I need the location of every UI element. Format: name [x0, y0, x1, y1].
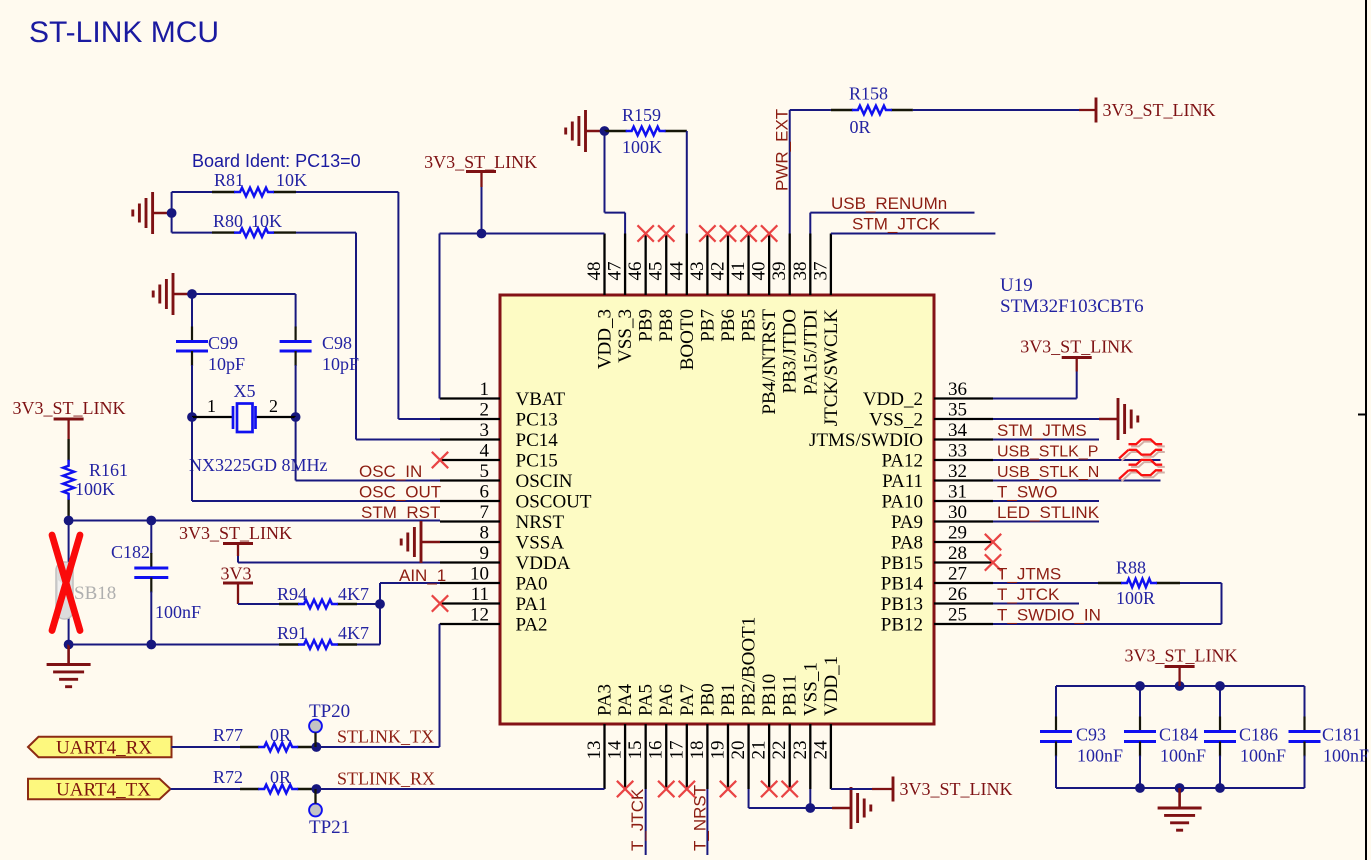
svg-text:2: 2: [480, 400, 490, 421]
svg-text:T_JTCK: T_JTCK: [628, 788, 647, 851]
svg-text:C181: C181: [1322, 725, 1361, 745]
svg-text:100R: 100R: [1116, 588, 1155, 608]
svg-text:20: 20: [728, 741, 749, 760]
svg-text:44: 44: [666, 261, 687, 281]
svg-text:SB18: SB18: [74, 583, 116, 604]
svg-text:33: 33: [948, 441, 967, 462]
svg-text:38: 38: [790, 262, 811, 281]
svg-text:3V3_ST_LINK: 3V3_ST_LINK: [900, 779, 1013, 799]
svg-text:ST-LINK MCU: ST-LINK MCU: [29, 16, 219, 49]
svg-text:PB9: PB9: [636, 309, 657, 342]
svg-text:LED_STLINK: LED_STLINK: [997, 503, 1100, 522]
svg-text:TP21: TP21: [309, 817, 350, 838]
svg-text:12: 12: [470, 605, 489, 626]
svg-text:7: 7: [480, 502, 490, 523]
svg-text:PB8: PB8: [656, 309, 677, 342]
svg-text:UART4_RX: UART4_RX: [56, 738, 152, 759]
svg-text:PB13: PB13: [881, 594, 923, 615]
svg-text:T_JTCK: T_JTCK: [997, 585, 1060, 604]
svg-text:NX3225GD 8MHz: NX3225GD 8MHz: [189, 455, 328, 475]
svg-text:100nF: 100nF: [1323, 746, 1369, 766]
svg-text:R91: R91: [277, 623, 307, 643]
svg-text:27: 27: [948, 564, 967, 585]
svg-text:T_JTMS: T_JTMS: [997, 565, 1061, 584]
svg-text:C184: C184: [1159, 725, 1198, 745]
svg-text:STM_JTCK: STM_JTCK: [852, 215, 941, 234]
svg-text:35: 35: [948, 400, 967, 421]
svg-text:PB14: PB14: [881, 574, 924, 595]
svg-text:10pF: 10pF: [322, 354, 359, 374]
svg-text:VSSA: VSSA: [516, 533, 565, 554]
svg-text:2: 2: [269, 396, 278, 416]
svg-text:JTCK/SWCLK: JTCK/SWCLK: [821, 309, 842, 426]
svg-text:5: 5: [480, 461, 490, 482]
svg-text:1: 1: [480, 379, 490, 400]
svg-text:0R: 0R: [850, 117, 871, 137]
svg-text:0R: 0R: [270, 725, 291, 745]
svg-text:3: 3: [480, 420, 490, 441]
svg-text:37: 37: [810, 262, 831, 281]
svg-text:3V3: 3V3: [221, 564, 252, 584]
svg-text:STM_JTMS: STM_JTMS: [997, 421, 1087, 440]
svg-text:T_SWO: T_SWO: [997, 483, 1057, 502]
svg-text:VDD_3: VDD_3: [595, 309, 616, 369]
svg-text:PA0: PA0: [516, 574, 548, 595]
svg-text:PA15/JTDI: PA15/JTDI: [800, 309, 821, 395]
svg-text:PA1: PA1: [516, 594, 548, 615]
svg-text:9: 9: [480, 543, 490, 564]
svg-text:PB3/JTDO: PB3/JTDO: [780, 309, 801, 393]
svg-text:16: 16: [646, 741, 667, 760]
svg-text:C186: C186: [1239, 725, 1278, 745]
svg-text:PA3: PA3: [595, 684, 616, 716]
svg-text:PA11: PA11: [882, 471, 923, 492]
svg-text:40: 40: [749, 262, 770, 281]
svg-text:C98: C98: [322, 333, 352, 353]
svg-text:R94: R94: [277, 584, 307, 604]
svg-text:3V3_ST_LINK: 3V3_ST_LINK: [1020, 337, 1133, 357]
svg-text:100nF: 100nF: [1160, 746, 1206, 766]
svg-text:R88: R88: [1116, 558, 1146, 578]
svg-text:19: 19: [707, 741, 728, 760]
svg-text:R159: R159: [622, 105, 661, 125]
svg-text:4K7: 4K7: [338, 623, 369, 643]
svg-text:45: 45: [646, 262, 667, 281]
svg-text:PB4/JNTRST: PB4/JNTRST: [759, 309, 780, 415]
svg-text:OSCOUT: OSCOUT: [516, 492, 592, 513]
svg-text:VSS_1: VSS_1: [800, 662, 821, 716]
svg-text:PB7: PB7: [697, 309, 718, 342]
svg-text:VDD_2: VDD_2: [863, 389, 923, 410]
svg-text:39: 39: [769, 262, 790, 281]
svg-text:VSS_3: VSS_3: [615, 309, 636, 363]
svg-text:PB6: PB6: [718, 309, 739, 342]
svg-text:PA7: PA7: [677, 684, 698, 716]
svg-text:T_SWDIO_IN: T_SWDIO_IN: [997, 606, 1101, 625]
svg-text:PWR_EXT: PWR_EXT: [773, 109, 792, 191]
svg-text:PA4: PA4: [615, 683, 636, 716]
svg-text:PC15: PC15: [516, 451, 558, 472]
svg-text:30: 30: [948, 502, 967, 523]
svg-text:PB15: PB15: [881, 553, 923, 574]
svg-text:C99: C99: [208, 333, 238, 353]
svg-text:PA9: PA9: [891, 512, 923, 533]
svg-text:BOOT0: BOOT0: [677, 309, 698, 370]
svg-text:STM_RST: STM_RST: [361, 503, 440, 522]
svg-text:3V3_ST_LINK: 3V3_ST_LINK: [1125, 646, 1238, 666]
svg-text:VBAT: VBAT: [516, 389, 566, 410]
svg-text:10K: 10K: [276, 170, 307, 190]
svg-text:PB2/BOOT1: PB2/BOOT1: [739, 617, 760, 716]
svg-text:24: 24: [810, 740, 831, 760]
svg-text:PA6: PA6: [656, 684, 677, 716]
svg-text:VDD_1: VDD_1: [821, 656, 842, 716]
svg-text:USB_STLK_P: USB_STLK_P: [997, 444, 1098, 461]
svg-text:1: 1: [207, 396, 216, 416]
svg-text:31: 31: [948, 482, 967, 503]
svg-text:100K: 100K: [622, 137, 662, 157]
svg-text:3V3_ST_LINK: 3V3_ST_LINK: [13, 398, 126, 418]
svg-text:36: 36: [948, 379, 967, 400]
svg-text:8: 8: [480, 523, 490, 544]
svg-text:21: 21: [749, 741, 770, 760]
svg-text:46: 46: [625, 262, 646, 281]
svg-text:UART4_TX: UART4_TX: [56, 780, 151, 801]
svg-text:R161: R161: [89, 460, 128, 480]
svg-text:C182: C182: [111, 542, 150, 562]
svg-text:100nF: 100nF: [1077, 746, 1123, 766]
svg-text:OSC_OUT: OSC_OUT: [359, 483, 441, 502]
svg-text:OSC_IN: OSC_IN: [359, 462, 422, 481]
svg-text:PC13: PC13: [516, 410, 558, 431]
svg-text:42: 42: [707, 262, 728, 281]
svg-text:23: 23: [790, 741, 811, 760]
svg-text:R81: R81: [214, 170, 244, 190]
svg-text:R158: R158: [849, 84, 888, 104]
svg-text:0R: 0R: [270, 767, 291, 787]
svg-text:32: 32: [948, 461, 967, 482]
svg-text:R72: R72: [213, 767, 243, 787]
svg-text:T_NRST: T_NRST: [691, 785, 710, 851]
svg-text:43: 43: [687, 262, 708, 281]
svg-text:15: 15: [625, 741, 646, 760]
svg-text:10K: 10K: [251, 211, 282, 231]
svg-text:25: 25: [948, 605, 967, 626]
svg-text:3V3_ST_LINK: 3V3_ST_LINK: [179, 523, 292, 543]
svg-text:41: 41: [728, 262, 749, 281]
svg-text:22: 22: [769, 741, 790, 760]
svg-text:10: 10: [470, 564, 489, 585]
svg-text:47: 47: [605, 262, 626, 281]
svg-text:USB_RENUMn: USB_RENUMn: [831, 194, 947, 213]
svg-text:PB12: PB12: [881, 615, 923, 636]
svg-text:100nF: 100nF: [155, 602, 201, 622]
svg-text:TP20: TP20: [309, 701, 350, 722]
svg-text:PB1: PB1: [718, 683, 739, 716]
svg-text:17: 17: [666, 741, 687, 760]
svg-text:STLINK_RX: STLINK_RX: [337, 769, 435, 789]
svg-text:PA2: PA2: [516, 615, 548, 636]
svg-text:6: 6: [480, 482, 490, 503]
svg-text:PC14: PC14: [516, 430, 559, 451]
svg-text:NRST: NRST: [516, 512, 565, 533]
svg-text:10pF: 10pF: [208, 354, 245, 374]
svg-text:PA12: PA12: [881, 451, 923, 472]
svg-text:100nF: 100nF: [1240, 746, 1286, 766]
svg-text:U19: U19: [1000, 275, 1033, 296]
svg-text:C93: C93: [1076, 725, 1106, 745]
svg-text:28: 28: [948, 543, 967, 564]
svg-text:34: 34: [948, 420, 968, 441]
svg-text:STM32F103CBT6: STM32F103CBT6: [1000, 296, 1144, 317]
svg-text:R77: R77: [213, 725, 243, 745]
svg-text:PA5: PA5: [636, 684, 657, 716]
svg-text:AIN_1: AIN_1: [399, 566, 446, 585]
svg-text:PB10: PB10: [759, 674, 780, 716]
svg-text:PB5: PB5: [739, 309, 760, 342]
svg-text:Board Ident: PC13=0: Board Ident: PC13=0: [192, 151, 361, 171]
svg-text:4K7: 4K7: [338, 584, 369, 604]
svg-text:PA10: PA10: [881, 492, 923, 513]
svg-text:13: 13: [584, 741, 605, 760]
svg-text:3V3_ST_LINK: 3V3_ST_LINK: [1103, 100, 1216, 120]
svg-text:29: 29: [948, 523, 967, 544]
svg-text:48: 48: [584, 262, 605, 281]
svg-text:26: 26: [948, 584, 967, 605]
svg-text:PA8: PA8: [891, 533, 923, 554]
svg-text:18: 18: [687, 741, 708, 760]
svg-text:11: 11: [471, 584, 489, 605]
svg-text:14: 14: [605, 740, 626, 760]
svg-text:USB_STLK_N: USB_STLK_N: [997, 464, 1099, 481]
svg-text:3V3_ST_LINK: 3V3_ST_LINK: [424, 152, 537, 172]
svg-text:JTMS/SWDIO: JTMS/SWDIO: [809, 430, 923, 451]
svg-text:PB0: PB0: [697, 683, 718, 716]
svg-text:100K: 100K: [75, 479, 115, 499]
svg-text:STLINK_TX: STLINK_TX: [337, 727, 434, 747]
svg-text:R80: R80: [213, 211, 243, 231]
svg-text:X5: X5: [234, 381, 256, 401]
svg-text:PB11: PB11: [780, 674, 801, 716]
svg-text:OSCIN: OSCIN: [516, 471, 573, 492]
svg-text:VSS_2: VSS_2: [869, 410, 923, 431]
svg-text:VDDA: VDDA: [516, 553, 571, 574]
svg-text:4: 4: [480, 441, 490, 462]
